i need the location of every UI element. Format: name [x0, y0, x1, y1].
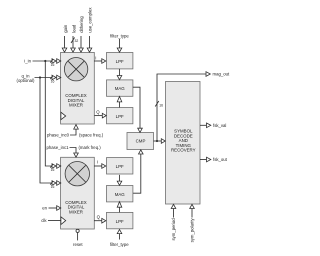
wire en — [49, 207, 57, 209]
svg-text:en: en — [42, 206, 47, 211]
arrowhead into MAG1 top — [117, 76, 122, 80]
svg-text:i_in: i_in — [24, 59, 31, 64]
clock marker U2 — [61, 217, 66, 225]
arrowhead sym_polarity into decode block — [190, 204, 195, 208]
svg-text:fsk_val: fsk_val — [213, 123, 226, 128]
arrowhead phase_inc0 into U1 bottom — [74, 125, 79, 130]
svg-text:MIXER: MIXER — [69, 103, 83, 108]
wire LPF1 to MAG1 — [119, 69, 121, 76]
complex digital mixer U1 — [61, 52, 95, 124]
comparator CMP — [127, 133, 154, 150]
bus width 16 mag_out — [155, 101, 163, 108]
wire filter_type top — [119, 39, 121, 48]
svg-text:LPF: LPF — [116, 164, 124, 169]
svg-text:16: 16 — [159, 104, 163, 108]
arrowhead into LPF1 — [102, 59, 106, 64]
complex digital mixer U2 — [61, 157, 95, 229]
bus width 16 q branch — [50, 181, 54, 188]
arrowhead dithering — [79, 48, 84, 52]
wire fsk_val — [200, 124, 206, 126]
svg-text:RECOVERY: RECOVERY — [171, 148, 196, 153]
MAG1 — [107, 80, 133, 96]
arrowhead i branch into U2 — [57, 164, 61, 169]
arrowhead filter_type top — [117, 48, 122, 52]
svg-text:LPF: LPF — [116, 219, 124, 224]
wire phase_inc1 stub — [70, 148, 77, 154]
arrowhead gain — [62, 48, 67, 52]
svg-text:clk: clk — [41, 218, 47, 223]
node CMP output junction — [156, 140, 158, 142]
LPF2 — [107, 108, 133, 124]
wire phase_inc0 stub — [70, 129, 76, 135]
wire reset — [77, 232, 79, 240]
arrowhead into MAG2 top — [117, 181, 122, 185]
svg-text:16: 16 — [51, 185, 55, 189]
node q_in junction — [39, 76, 41, 78]
svg-text:phase_inc0: phase_inc0 — [47, 133, 70, 138]
svg-text:gain: gain — [63, 24, 68, 33]
output port fsk_out — [207, 157, 211, 162]
svg-text:load: load — [71, 24, 76, 33]
wire i_in — [33, 60, 52, 62]
svg-text:reset: reset — [73, 242, 83, 247]
svg-text:sym_polarity: sym_polarity — [190, 217, 195, 242]
wire MAG2 to CMP — [133, 154, 141, 193]
LPF4 — [107, 212, 133, 228]
svg-text:I: I — [97, 160, 98, 165]
svg-text:32: 32 — [75, 39, 79, 43]
wire gain — [64, 36, 66, 48]
wire load — [72, 36, 74, 48]
wire dithering — [80, 36, 82, 48]
arrowhead phase_inc1 into U2 top — [74, 153, 79, 157]
wire sym_period stub — [173, 208, 175, 217]
port marker q branch U2 — [52, 181, 56, 186]
svg-text:(optional): (optional) — [17, 78, 35, 83]
svg-text:(space freq.): (space freq.) — [79, 133, 104, 138]
arrowhead into MAG2 bottom — [117, 202, 122, 208]
wire q_in branch down to U2 — [40, 78, 52, 184]
symbol decode and timing recovery block — [166, 82, 201, 205]
arrowhead into decode block — [161, 139, 165, 144]
arrowhead into CMP top — [138, 128, 143, 132]
svg-text:16: 16 — [51, 79, 55, 83]
wire i_in branch down to U2 — [45, 61, 52, 166]
bus width 16 i branch — [50, 164, 54, 171]
node i_in junction — [44, 60, 46, 62]
svg-text:filter_type: filter_type — [110, 34, 129, 39]
arrowhead into LPF3 — [102, 164, 106, 169]
port marker i branch U2 — [52, 164, 56, 169]
arrowhead q branch into U2 — [57, 181, 61, 186]
arrowhead q_in into U1 — [57, 75, 61, 80]
arrowhead into CMP bottom — [139, 150, 144, 154]
svg-text:16: 16 — [51, 168, 55, 172]
wire filter_type bottom — [119, 233, 121, 239]
arrowhead i_in into U1 — [57, 59, 61, 64]
svg-text:(mark freq.): (mark freq.) — [79, 145, 102, 150]
bus width 32 load — [71, 38, 78, 44]
svg-text:phase_inc1: phase_inc1 — [47, 145, 70, 150]
LPF1 — [107, 53, 133, 69]
svg-text:mag_out: mag_out — [213, 72, 231, 77]
wire I U1 to LPF1 — [94, 60, 102, 62]
bus width 16 i_in — [50, 59, 54, 66]
svg-text:16: 16 — [51, 63, 55, 67]
port marker q_in — [52, 75, 56, 80]
mixer symbol circle U2 — [65, 162, 89, 186]
wire LPF3 to MAG2 — [119, 175, 121, 181]
wire Q U1 to LPF2 — [95, 115, 103, 117]
MAG2 — [107, 186, 133, 202]
port marker i_in — [52, 59, 56, 64]
svg-text:dithering: dithering — [79, 16, 84, 33]
svg-text:CMP: CMP — [136, 139, 146, 144]
bus width 16 q_in — [50, 76, 54, 83]
wire I U2 to LPF3 — [94, 165, 102, 167]
arrowhead filter_type into LPF4 bottom — [117, 229, 122, 233]
wire CMP output — [154, 140, 162, 142]
svg-text:MIXER: MIXER — [69, 209, 83, 214]
arrowhead into LPF2 — [102, 113, 106, 118]
svg-text:filter_type: filter_type — [110, 242, 129, 247]
arrowhead use_complex — [87, 48, 92, 52]
wire clk — [48, 220, 61, 222]
output port fsk_val — [207, 123, 211, 128]
wire q_in — [35, 77, 52, 79]
wire Q U2 to LPF4 — [94, 220, 102, 222]
svg-text:LPF: LPF — [116, 59, 124, 64]
wire use_complex — [89, 36, 91, 48]
svg-text:I: I — [95, 55, 96, 60]
LPF3 — [107, 158, 133, 174]
inverter bubble reset into U2 bottom — [76, 229, 79, 232]
svg-text:MAG: MAG — [115, 86, 126, 91]
svg-text:use_complex: use_complex — [87, 7, 92, 33]
wire LPF4 to MAG2 — [119, 207, 121, 212]
svg-text:fsk_out: fsk_out — [213, 157, 228, 162]
mixer symbol circle U1 — [64, 57, 87, 80]
svg-text:MAG: MAG — [115, 192, 126, 197]
svg-text:LPF: LPF — [116, 114, 124, 119]
arrowhead into LPF4 — [102, 218, 106, 223]
arrowhead into MAG1 bottom — [117, 97, 122, 102]
arrowhead en into U2 — [57, 206, 61, 211]
wire fsk_out — [200, 159, 206, 161]
output port mag_out — [206, 72, 210, 77]
arrowhead load — [71, 48, 76, 52]
wire LPF2 to MAG1 — [119, 102, 121, 108]
arrowhead sym_period into decode block — [171, 204, 176, 208]
clock marker U1 — [61, 112, 66, 120]
svg-text:sym_period: sym_period — [171, 218, 176, 241]
wire MAG1 to CMP — [133, 87, 140, 128]
wire mag_out riser — [157, 74, 206, 141]
wire sym_polarity stub — [191, 208, 193, 217]
